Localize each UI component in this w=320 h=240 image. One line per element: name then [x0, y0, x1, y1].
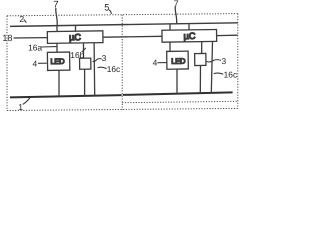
- svg-text:7: 7: [174, 0, 179, 9]
- wire: U2 top stub a to bus: [169, 25, 171, 31]
- svg-text:2: 2: [19, 14, 24, 24]
- leader of label 16c left: [98, 67, 107, 68]
- svg-text:LED: LED: [171, 57, 186, 66]
- wire: line 18 segment left of U1: [14, 37, 48, 39]
- wire: line 18 segment between U1 and U2: [103, 35, 162, 38]
- op-amp U1 microcontroller box: [47, 31, 103, 44]
- sensor 3 box (left module): [80, 58, 91, 69]
- dashed enclosure top edge (device 5 outline): [7, 14, 238, 16]
- svg-text:18: 18: [2, 33, 12, 43]
- wire: left sensor 3 to carrier line: [84, 69, 86, 96]
- wire: U1 top stub b to bus: [75, 26, 77, 32]
- leader of label 16b: [82, 48, 86, 52]
- wire: line 18 segment right of U2: [217, 34, 238, 36]
- leader of label 16c right: [214, 73, 224, 74]
- leader of label 5: [109, 10, 111, 14]
- dashed enclosure left edge: [6, 16, 8, 111]
- svg-text:µC: µC: [184, 31, 196, 41]
- svg-text:3: 3: [102, 53, 107, 63]
- svg-text:7: 7: [53, 0, 58, 11]
- svg-text:5: 5: [104, 1, 109, 12]
- svg-text:µC: µC: [69, 32, 81, 42]
- leader of label 3 right: [207, 60, 221, 62]
- svg-text:3: 3: [221, 56, 226, 66]
- leader of label 2: [24, 20, 27, 23]
- svg-text:16b: 16b: [70, 50, 84, 60]
- leader of label 4 left: [38, 62, 47, 64]
- svg-text:4: 4: [32, 59, 37, 69]
- dashed enclosure right edge: [237, 14, 239, 109]
- wire: top supply bus 7: [10, 23, 238, 27]
- svg-text:16c: 16c: [224, 69, 238, 79]
- LED D1 box: [47, 52, 69, 70]
- wire: D2 to carrier line: [176, 69, 178, 94]
- dashed enclosure bottom edge: [7, 108, 238, 110]
- svg-text:1: 1: [18, 102, 23, 112]
- leader of label 16a: [41, 46, 56, 48]
- wire: right sensor 3 to carrier line: [199, 65, 201, 93]
- wire 16c: U1 to carrier line: [93, 43, 96, 96]
- wire: U2 top stub b to bus: [188, 24, 190, 30]
- sensor 3 box (right module): [195, 53, 206, 65]
- wire 16a: U1 to LED D1: [56, 43, 58, 53]
- leader of label 7 right: [175, 6, 177, 23]
- svg-text:16c: 16c: [107, 64, 121, 74]
- wire: U2 to sensor 3: [201, 42, 203, 54]
- svg-text:16a: 16a: [28, 43, 42, 53]
- leader of label 3 left: [93, 59, 102, 62]
- wire 16c: U2 to carrier line: [211, 42, 212, 94]
- wire: U1 top stub a to bus: [56, 26, 58, 32]
- dashed divider between module 2 and right module: [121, 15, 123, 110]
- wire: U2 to LED D2: [169, 42, 171, 52]
- svg-text:4: 4: [153, 57, 158, 67]
- wire: D1 to carrier line: [58, 70, 60, 96]
- LED D2 box: [167, 51, 189, 69]
- leader of label 1: [23, 98, 30, 104]
- op-amp U2 microcontroller box: [162, 30, 217, 43]
- wire 16b: U1 to sensor 3: [83, 43, 85, 58]
- wire: bottom carrier line 1, left module: [10, 95, 122, 97]
- dashed bottom edge of right module: [122, 101, 238, 102]
- leader of label 4 right: [157, 62, 166, 64]
- leader of label 7 left: [56, 8, 58, 26]
- wire: bottom carrier line 1, right module: [123, 92, 233, 95]
- svg-text:LED: LED: [50, 57, 65, 66]
